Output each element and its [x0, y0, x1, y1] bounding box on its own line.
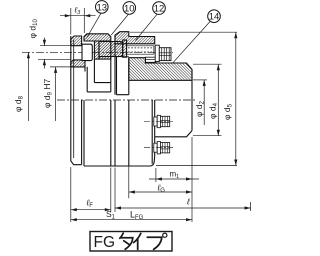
- main centerline: [57, 99, 196, 101]
- flange 13 bottom corner: [71, 161, 82, 165]
- dim phi d10 extension lines: [38, 46, 71, 60]
- dim l3 line: [60, 15, 96, 17]
- dim phi d9 extension line: [50, 66, 71, 68]
- flange 13 chamfer line: [73, 39, 75, 158]
- phi d9 arrow: [54, 67, 57, 73]
- hole bottom edge line: [117, 56, 129, 58]
- rubber bushing on bolt (dense hatch): [99, 42, 123, 57]
- sleeve 10 inner recess: [87, 41, 111, 92]
- phi d2 arrow: [203, 80, 206, 86]
- svg-text:ℓ: ℓ: [186, 196, 190, 206]
- balloon 12: [153, 2, 166, 15]
- balloon 14: [208, 10, 221, 23]
- flange 13 right face lower half: [81, 100, 83, 165]
- sleeve 10 top flange band hatched: [84, 34, 111, 41]
- dim l3 extension lines: [71, 8, 85, 35]
- dimension lines: [28, 8, 250, 222]
- bushing end cap hatched: [123, 40, 127, 57]
- phi d4 arrows: [217, 64, 220, 136]
- lG arrows: [129, 190, 192, 193]
- washer at nut: [155, 45, 159, 61]
- dim phi d8 line: [27, 52, 29, 121]
- dim phi d2 line: [203, 80, 205, 125]
- balloon 13: [96, 1, 221, 23]
- dim phi d5 extension lines: [130, 32, 237, 165]
- phi d8 arrow: [27, 52, 30, 58]
- flange 13 lower hatched section: [71, 60, 85, 67]
- svg-text:FG: FG: [94, 234, 116, 251]
- arrowheads: [27, 14, 251, 221]
- collar left face: [114, 35, 116, 95]
- leader 12: [136, 14, 158, 40]
- lF arrows: [71, 208, 111, 211]
- washer boss on flange: [146, 57, 156, 62]
- bottom joint lines: [111, 100, 129, 166]
- dim l line: [115, 207, 251, 209]
- l3 arrows: [65, 14, 91, 17]
- dim phi d5 line: [235, 32, 237, 165]
- dim lF line: [71, 209, 111, 211]
- collar of flange G upper hatched: [115, 32, 155, 44]
- flange 13 bore step edge: [84, 67, 86, 72]
- hub 14 hatched section: [129, 58, 192, 81]
- katakana pu: [147, 237, 162, 249]
- balloon 10: [123, 2, 136, 15]
- dim phi d10 line: [43, 38, 45, 69]
- bolt 12 head (white, unsectioned): [82, 44, 92, 60]
- svg-text:12: 12: [154, 4, 165, 15]
- katakana ta: [120, 233, 123, 238]
- leader lines: [86, 13, 210, 63]
- bolt threads: [127, 46, 154, 54]
- set bolt 1 centerline: [144, 121, 173, 123]
- m1 arrows: [156, 177, 192, 180]
- nut (ribbed, side view): [159, 48, 171, 61]
- sleeve 10 strip under bushing hole: [99, 57, 111, 60]
- dim LFG line: [71, 219, 192, 221]
- hub 14 left face: [128, 58, 130, 95]
- leader 14: [173, 21, 211, 63]
- flange 13 upper hatched section: [71, 36, 82, 46]
- bolt axis centerline: [22, 51, 173, 53]
- katakana i: [134, 233, 141, 242]
- dim m1 line: [149, 178, 199, 180]
- svg-text:10: 10: [124, 3, 135, 14]
- svg-text:14: 14: [209, 12, 220, 23]
- set bolt 2 centerline: [144, 147, 173, 149]
- dim phi d9 line: [55, 67, 57, 121]
- sleeve 10 left face lower half: [83, 100, 85, 166]
- title box FG type: [90, 232, 172, 252]
- set bolt lower view 1: [154, 115, 170, 127]
- collar inner wall and recess floor: [117, 57, 129, 95]
- flange right face lines lower half: [152, 100, 155, 164]
- leader 10: [111, 14, 128, 35]
- dim lG line: [129, 191, 192, 193]
- bottom extension lines: [71, 137, 251, 222]
- LFG arrows: [71, 218, 192, 221]
- dim phi d4 extension lines: [193, 64, 222, 136]
- hub 14 bottom exterior outline: [155, 131, 192, 137]
- leader 13: [86, 13, 101, 38]
- svg-text:13: 13: [97, 2, 108, 13]
- sleeve 10 column hatched: [94, 41, 99, 59]
- sleeve/flange group bottom exterior outline: [84, 137, 155, 166]
- flange 13 left face: [70, 36, 72, 161]
- hub 14 right face: [191, 69, 193, 130]
- phi d5 arrows: [234, 32, 237, 165]
- balloon numbers: [97, 2, 220, 22]
- l arrows: [115, 206, 251, 209]
- phi d10 arrows: [43, 40, 46, 66]
- dim phi d4 line: [217, 64, 219, 136]
- dim phi d2 extension line: [193, 79, 207, 81]
- set bolt lower view 2: [154, 142, 170, 154]
